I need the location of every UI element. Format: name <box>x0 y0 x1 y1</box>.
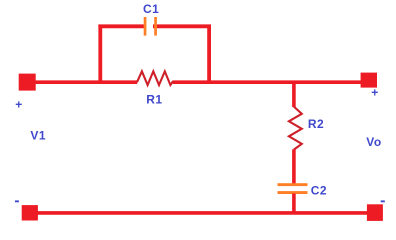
wire loop top left segment <box>98 24 146 28</box>
svg-text:R1: R1 <box>146 93 162 107</box>
svg-text:C1: C1 <box>143 2 159 16</box>
label minus right <box>381 200 385 202</box>
wire branch vertical upper <box>292 82 296 107</box>
terminal Vo minus <box>367 204 383 221</box>
resistor R2 <box>289 107 302 150</box>
wire capacitor C2 to bottom <box>292 194 296 214</box>
svg-text:+: + <box>371 86 378 100</box>
svg-text:V1: V1 <box>30 128 46 142</box>
terminal Vo plus <box>361 73 377 88</box>
wire loop left vertical <box>98 25 102 83</box>
capacitor C1 <box>144 17 157 36</box>
svg-text:C2: C2 <box>311 184 327 198</box>
svg-text:Vo: Vo <box>366 135 381 149</box>
terminal V1 minus <box>22 205 38 220</box>
wire loop right vertical <box>207 25 211 83</box>
svg-text:+: + <box>15 97 22 111</box>
terminal V1 plus <box>19 74 36 91</box>
resistor R1 <box>137 71 173 85</box>
wire branch vertical lower <box>292 149 296 184</box>
svg-text:R2: R2 <box>308 117 324 131</box>
wire top main right segment <box>173 80 362 84</box>
capacitor C2 <box>278 183 308 194</box>
wire bottom main <box>30 211 375 215</box>
wire loop top right segment <box>153 24 211 28</box>
wire top main left segment <box>27 80 137 84</box>
label minus left <box>15 200 19 202</box>
